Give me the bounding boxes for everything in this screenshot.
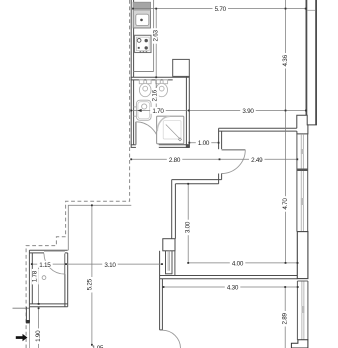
svg-text:5.25: 5.25: [87, 278, 94, 290]
label 1.15: [37, 261, 53, 269]
svg-text:2.89: 2.89: [281, 312, 288, 324]
living room door: [222, 150, 246, 174]
kitchen left wall: [131, 0, 133, 147]
label 2.63: [153, 28, 160, 44]
entrance wall stub: [26, 307, 30, 324]
kitchen counter front edge: [134, 0, 154, 72]
svg-text:4.70: 4.70: [282, 198, 289, 210]
living west column: [163, 239, 175, 251]
dim 1.00: [189, 142, 218, 144]
label 3.10: [102, 261, 118, 269]
svg-text:2.16: 2.16: [152, 89, 159, 101]
bathroom shaft column top-right: [173, 59, 190, 76]
east window living: [297, 134, 308, 232]
kitchen stove: [135, 35, 152, 52]
label 4.00: [230, 260, 246, 268]
svg-text:3.10: 3.10: [104, 262, 116, 269]
dim 2.63: [155, 9, 157, 78]
svg-text:2.63: 2.63: [153, 30, 160, 42]
bathroom door: [136, 122, 159, 145]
dashed terrace boundary left/top: [26, 0, 130, 348]
label 5.70: [213, 5, 229, 13]
dim 1.70 / 3.90: [131, 110, 306, 112]
svg-text:1.90: 1.90: [35, 330, 42, 342]
dim 1.15 / 3.10: [32, 263, 162, 265]
label 5.25: [87, 277, 94, 293]
label 2.16: [152, 88, 159, 104]
dim 2.16: [155, 80, 157, 111]
label 1.78: [32, 269, 39, 285]
dim 5.25: [91, 205, 93, 344]
east inner wall upper: [305, 0, 307, 115]
small room door: [44, 254, 65, 275]
dim 4.00: [188, 262, 297, 264]
east outer wall: [315, 0, 317, 125]
label 3.90: [240, 107, 256, 115]
svg-text:1.70: 1.70: [152, 108, 164, 115]
svg-text:3.00: 3.00: [185, 221, 192, 233]
toilet 1: [139, 80, 151, 97]
svg-text:1.15: 1.15: [39, 262, 51, 269]
toilet 2 (bidet): [156, 80, 168, 97]
dim 4.36: [285, 0, 287, 111]
bottom right corner pier: [291, 340, 308, 348]
shower: [157, 116, 184, 144]
thin wall line below stub: [28, 323, 30, 348]
entrance wall line: [13, 307, 30, 309]
living west window: [166, 251, 175, 276]
label 2.89: [281, 311, 288, 327]
svg-text:4.36: 4.36: [282, 54, 289, 66]
label 4.70: [282, 196, 289, 212]
living door wall upper: [219, 128, 222, 149]
svg-text:1.00: 1.00: [198, 140, 210, 147]
label 1.00: [196, 139, 212, 147]
svg-text:3.90: 3.90: [242, 108, 254, 115]
bedroom door arc: [162, 330, 180, 348]
bedroom west wall: [160, 251, 163, 330]
left wall inner: [133, 80, 135, 145]
living door wall lower + corner: [172, 174, 222, 184]
label 3.00: [185, 220, 192, 236]
label 1.90: [35, 328, 42, 344]
dimension labels: [32, 5, 289, 348]
dim 2.89: [284, 287, 286, 348]
dim 4.70: [285, 111, 287, 263]
label 4.36: [282, 53, 289, 69]
small room door head: [44, 251, 65, 253]
dim 4.30: [164, 286, 298, 288]
east window bedroom: [297, 281, 308, 340]
right wall: [185, 76, 187, 147]
svg-text:4.30: 4.30: [227, 285, 239, 292]
wall connector top right: [307, 9, 315, 11]
svg-text:4.00: 4.00: [232, 261, 244, 268]
bathroom walls: [131, 76, 190, 147]
dim 1.78: [38, 264, 40, 304]
east pier step: [297, 115, 317, 134]
dim 3.00: [187, 184, 189, 263]
label 2.80: [167, 156, 183, 164]
label 2.49: [249, 156, 265, 164]
entrance arrow: [16, 334, 28, 341]
svg-text:2.80: 2.80: [169, 157, 181, 164]
hall top wall: [219, 128, 297, 131]
svg-text:2.49: 2.49: [251, 157, 263, 164]
svg-text:1.78: 1.78: [32, 270, 39, 282]
label 4.30: [225, 284, 241, 292]
small circle symbol: [42, 276, 46, 280]
bottom wall (door gap 135.9-158.8): [131, 144, 136, 146]
washbasin: [134, 100, 151, 120]
east pier middle: [297, 232, 308, 279]
dim 1.90: [38, 308, 40, 348]
living bottom wall: [160, 276, 298, 279]
dim 5.70: [133, 8, 306, 10]
kitchen sink unit: [133, 2, 150, 28]
top wall: [131, 76, 190, 78]
label 1.70: [150, 107, 166, 115]
terrace edge solid line: [68, 205, 131, 250]
svg-text:5.70: 5.70: [215, 6, 227, 13]
living west wall: [172, 180, 176, 239]
bathroom wall corner fill: [186, 144, 190, 148]
small room walls: [29, 250, 67, 307]
dimension ticks: [31, 8, 307, 346]
dim 2.80 / 2.49: [131, 158, 297, 160]
